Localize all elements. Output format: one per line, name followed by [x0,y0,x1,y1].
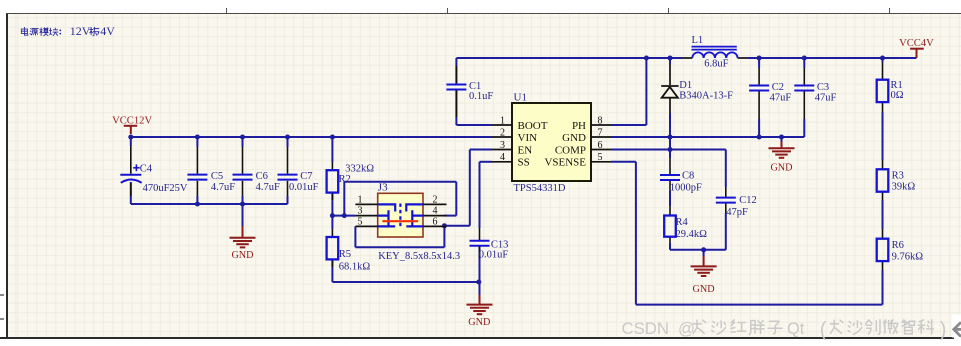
power VCC4V [899,38,934,58]
svg-text:3: 3 [358,206,363,217]
sheet border left [6,13,8,339]
svg-text:GND: GND [468,317,490,328]
svg-text:6: 6 [598,140,603,151]
inductor L1 6.8uF [682,35,748,70]
svg-text:6.8uF: 6.8uF [704,59,728,70]
capacitor C2 47uF [749,68,791,119]
wire J3 pin6 to EN riser [444,150,469,226]
svg-text:GND: GND [693,284,715,295]
wire R5 column [331,216,333,282]
svg-text:C5: C5 [211,171,223,182]
J3 designator [378,182,388,194]
wire D1 to COMP to C8 [669,137,671,206]
svg-text:R3: R3 [892,171,904,182]
svg-text:SS: SS [518,157,530,169]
wire R3 to R6 [882,200,884,229]
svg-text:KEY_8.5x8.5x14.3: KEY_8.5x8.5x14.3 [378,251,460,262]
wire C6 column [242,137,244,204]
svg-text:470uF25V: 470uF25V [143,183,188,194]
wire C3 column [803,58,805,137]
wire EN row [470,149,492,151]
svg-text:1: 1 [500,115,505,126]
J3 pins right 2 4 6 [423,204,447,226]
ruler ticks top [226,8,227,13]
svg-text:0Ω: 0Ω [891,90,904,101]
wire PH riser [611,58,646,125]
wire C12 column [725,150,727,250]
svg-text:R6: R6 [892,240,904,251]
svg-text:EN: EN [518,144,533,156]
wire GND stem under C2C3 bus [781,137,783,142]
watermark arrow [952,315,961,338]
svg-text:@: @ [678,319,695,338]
U1 pin numbers [500,115,603,163]
svg-text:9.76kΩ: 9.76kΩ [892,252,924,263]
wire R2 column [331,137,333,216]
svg-text:TPS54331D: TPS54331D [514,183,566,194]
wire R4/C12 bottom bus [670,249,726,251]
resistor R4 29.4k [664,206,707,243]
J3 switch symbol [378,204,423,228]
wire R1 column [882,58,884,160]
svg-text:5: 5 [358,216,363,227]
svg-text:6: 6 [433,216,438,227]
ground GND3 under R4 C12 [691,256,717,295]
capacitor C12 47pF [716,187,757,218]
svg-text:Qt: Qt [787,320,805,338]
J3 value KEY_8.5x8.5x14.3 [378,251,460,262]
svg-text:C7: C7 [300,171,312,182]
svg-text:8: 8 [598,115,603,126]
wire R2/R5 junction to J3 pin3 [332,215,355,217]
svg-text:C3: C3 [817,82,829,93]
capacitor C4 470uF25V polarized [120,146,188,196]
wire top bootstrap/output rail y=58 [456,57,916,59]
resistor R2 332k [327,162,375,200]
svg-text::: : [59,26,63,38]
svg-text:1000pF: 1000pF [670,183,702,194]
svg-text:VIN: VIN [518,132,538,144]
capacitor C13 0.01uF [470,228,509,261]
wire VSENSE bottom route [636,162,883,305]
wire C4 column [130,137,132,204]
resistor R1 0ohm [877,62,904,112]
wire GND stem under C6 [242,204,244,226]
wire VCC12V input bus y=137 [130,136,492,138]
svg-text:VCC4V: VCC4V [899,38,934,49]
U1 pins right 8-5 [591,125,611,162]
svg-text:4: 4 [433,206,438,217]
capacitor C1 0.1uF [446,66,493,117]
svg-text:4V: 4V [100,24,115,38]
ground GND1 under C6 [230,226,256,261]
U1 pin names [518,120,587,169]
svg-text:5: 5 [598,152,603,163]
J3 pins left 1 3 5 [355,204,377,226]
wire loop J3 pin3-pin4 over top [344,182,456,216]
svg-text:R2: R2 [339,174,351,185]
svg-text:12V: 12V [70,24,91,38]
wire R6 bottom to VSENSE route [882,270,884,305]
resistor R3 39k [877,160,916,200]
wire COMP row [611,149,726,151]
svg-text:C12: C12 [739,195,757,206]
capacitor C5 4.7uF [187,147,235,196]
ground GND4 under C13 [467,295,493,328]
svg-text:COMP: COMP [555,144,586,156]
svg-text:VSENSE: VSENSE [544,157,586,169]
wire D1 column [669,58,671,137]
svg-text:C8: C8 [682,171,694,182]
wire left bottom bus y=204 [131,203,288,205]
svg-text:3: 3 [500,140,505,151]
svg-text:2: 2 [500,127,505,138]
wire BOOT to C1 [456,58,492,125]
svg-text:GND: GND [562,132,586,144]
op-amp U1 TPS54331D body [512,103,591,181]
svg-text:332kΩ: 332kΩ [345,163,374,174]
svg-text:1: 1 [358,194,363,205]
wire GND stem under R4 bus [703,250,705,256]
svg-text:GND: GND [770,162,792,173]
wire R4 bottom [669,243,671,250]
sheet border bottom [0,337,954,339]
svg-text:47pF: 47pF [726,207,748,218]
resistor R6 9.76k [877,229,924,270]
sheet border top [6,13,961,15]
diode D1 B340A-13-F [661,64,733,113]
wire SS row [480,161,493,163]
svg-text:0.1uF: 0.1uF [469,91,493,102]
watermark CSDN @长沙红胖子Qt（长沙创微智科） [622,319,947,341]
svg-text:BOOT: BOOT [518,120,548,132]
wire C13 column [479,162,481,295]
power VCC12V [112,116,152,134]
svg-text:(: ( [820,319,827,341]
svg-text:J3: J3 [378,182,388,194]
svg-text:GND: GND [231,250,253,261]
svg-text:2: 2 [433,194,438,205]
U1 value TPS54331D [514,183,566,194]
svg-text:U1: U1 [514,92,527,104]
svg-text:B340A-13-F: B340A-13-F [679,90,733,101]
svg-text:CSDN: CSDN [622,319,670,338]
svg-text:R4: R4 [676,217,689,228]
svg-text:C6: C6 [256,171,268,182]
wire VSENSE row [611,161,636,163]
wire C2 column [758,58,760,137]
wire R5 bottom bus to C13 [332,281,478,283]
svg-text:C2: C2 [772,82,784,93]
svg-text:4.7uF: 4.7uF [211,182,235,193]
capacitor C6 4.7uF [233,147,280,196]
svg-text:R5: R5 [339,249,351,260]
U1 pins left 1-4 [492,125,512,162]
svg-text:C4: C4 [140,164,153,175]
wire J3 pin5-pin6 U loop [355,226,444,247]
capacitor C3 47uF [794,68,836,119]
svg-text:0.01uF: 0.01uF [479,250,509,261]
svg-text:): ) [940,319,947,341]
svg-text:4.7uF: 4.7uF [256,182,280,193]
svg-text:29.4kΩ: 29.4kΩ [676,229,708,240]
wire C7 column [287,137,289,204]
resistor R5 68.1k [327,229,371,273]
svg-text:4: 4 [500,152,505,163]
svg-text:0.01uF: 0.01uF [289,182,319,193]
svg-text:7: 7 [598,127,603,138]
title 电源模块：12V转4V [21,24,115,38]
wire C5 column [196,137,198,204]
capacitor C7 0.01uF [278,147,319,196]
svg-text:47uF: 47uF [815,92,837,103]
connector J3 key switch body [378,193,423,237]
J3 pin numbers [358,194,438,227]
svg-text:68.1kΩ: 68.1kΩ [339,262,371,273]
svg-text:PH: PH [572,120,586,132]
svg-text:L1: L1 [692,35,704,46]
svg-text:47uF: 47uF [770,92,792,103]
capacitor C8 1000pF [660,158,702,194]
U1 designator [514,92,527,104]
svg-text:39kΩ: 39kΩ [892,181,916,192]
ground GND2 under C2 C3 [769,142,795,174]
wire GND bus right of U1 y=137 [611,136,804,138]
